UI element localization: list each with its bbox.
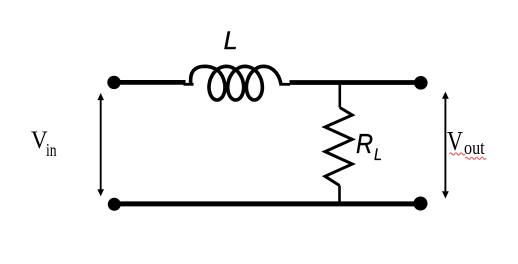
wire inductor right lead <box>279 83 290 86</box>
wire inductor left lead <box>184 83 194 86</box>
squiggle spellcheck under Vout out <box>465 157 486 159</box>
label Vout subscript out <box>464 139 485 158</box>
resistor RL top lead <box>338 83 341 108</box>
arrow Vin double-headed <box>97 93 104 196</box>
label Vout V <box>447 127 463 155</box>
wire top-right segment <box>290 80 421 85</box>
label Vin subscript in <box>46 141 57 159</box>
node terminal top-right <box>414 76 428 90</box>
wire bottom <box>114 201 420 206</box>
label L (inductor) <box>224 29 238 54</box>
node terminal bottom-right <box>414 197 428 211</box>
label Vin V <box>31 128 48 153</box>
label RL (resistor) R <box>356 130 373 158</box>
arrow Vout double-headed <box>442 92 449 199</box>
inductor L <box>191 66 281 100</box>
wire top-left segment <box>114 80 186 85</box>
node terminal bottom-left <box>108 198 121 211</box>
node terminal top-left <box>107 76 120 89</box>
resistor RL bottom lead <box>338 186 341 204</box>
resistor RL zigzag <box>325 108 352 186</box>
label RL subscript L <box>374 146 382 163</box>
squiggle spellcheck under Vout V <box>449 153 465 155</box>
